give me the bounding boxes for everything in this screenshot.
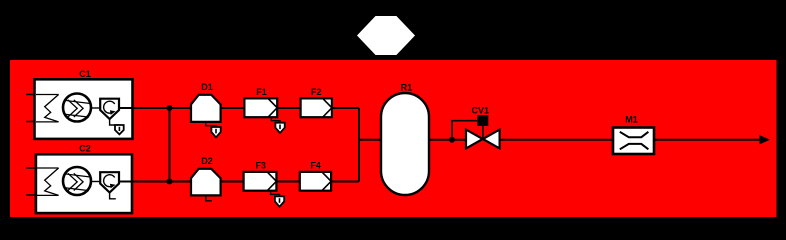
- wire valve signal line: [452, 121, 477, 140]
- wire F3 to F4: [276, 181, 299, 183]
- wire merge to receiver R1: [359, 139, 381, 141]
- wire junction to dryer D2: [170, 181, 192, 183]
- control valve CV1 body: [466, 130, 500, 149]
- svg-text:R1: R1: [401, 82, 413, 92]
- svg-text:CV1: CV1: [472, 106, 490, 116]
- filter F4: [300, 172, 331, 191]
- filter F1: [244, 98, 277, 117]
- receiver tank R1: [381, 93, 429, 195]
- svg-text:D2: D2: [201, 156, 213, 166]
- wire D2 to F3: [221, 181, 244, 183]
- status hexagon indicator: [357, 16, 415, 55]
- svg-text:F1: F1: [256, 87, 267, 97]
- wire F1 to F2: [277, 107, 300, 109]
- wire CV1 to meter M1: [500, 139, 613, 141]
- junction node upper: [167, 105, 173, 111]
- valve CV1 stem: [482, 126, 484, 139]
- separator rotation arrow C2: [104, 175, 116, 189]
- compressor blades C2: [64, 173, 90, 190]
- auto drain shield F3: [275, 196, 284, 206]
- valve CV1 actuator: [477, 115, 488, 126]
- separator rotation arrow C1: [104, 101, 116, 115]
- moisture separator C1: [100, 99, 119, 119]
- auto drain shield C1: [115, 125, 124, 134]
- wire F2 to merge riser: [332, 107, 359, 109]
- wire C1 intake line upper: [26, 94, 58, 96]
- wire R1 to valve CV1: [429, 139, 466, 141]
- wire compressor to separator C2: [91, 181, 100, 183]
- svg-text:F4: F4: [310, 160, 321, 170]
- re-draw of intake lines inside box C1: [36, 95, 59, 122]
- wire junction to dryer D1: [170, 107, 192, 109]
- wire C1 output to junction: [119, 107, 170, 109]
- intake filter symbol C2: [45, 168, 59, 195]
- wire C2 output to junction: [119, 181, 170, 183]
- wire C2 intake line lower: [26, 194, 58, 196]
- wire dryer drain D1: [206, 122, 216, 127]
- filter F2: [301, 98, 332, 117]
- auto drain shield F1: [275, 123, 284, 133]
- wire junction riser between branches: [169, 108, 171, 182]
- wire D1 to F1: [221, 107, 245, 109]
- dryer D1: [191, 95, 221, 122]
- wire C2 intake line upper: [26, 167, 58, 169]
- re-draw of intake lines inside box C2: [37, 168, 59, 195]
- svg-text:C1: C1: [79, 69, 91, 79]
- auto drain shield D1: [211, 127, 220, 137]
- compressor blades C1: [64, 100, 90, 117]
- wire merge riser: [358, 108, 360, 182]
- compressor circle C2: [63, 167, 91, 195]
- wire F4 to merge riser: [331, 181, 359, 183]
- svg-text:F2: F2: [311, 87, 322, 97]
- svg-text:D1: D1: [201, 82, 213, 92]
- junction node lower: [167, 179, 173, 185]
- junction node valve signal tap: [449, 137, 455, 143]
- compressor unit box C1: [35, 79, 133, 139]
- svg-text:M1: M1: [625, 114, 638, 124]
- filter F3: [244, 172, 277, 191]
- compressor unit box C2: [36, 154, 132, 213]
- compressor circle C1: [63, 94, 91, 122]
- wire compressor to separator C1: [91, 107, 100, 109]
- wire separator drain C1: [110, 119, 120, 125]
- svg-text:F3: F3: [255, 160, 266, 170]
- svg-text:C2: C2: [79, 144, 91, 154]
- manual drain hook C2: [110, 193, 116, 199]
- flow meter M1: [613, 128, 654, 155]
- wire M1 to outlet arrow: [654, 139, 761, 141]
- intake filter symbol C1: [45, 95, 59, 122]
- manual drain hook D2: [206, 195, 212, 200]
- dryer D2: [191, 169, 221, 196]
- outlet arrowhead: [760, 135, 771, 144]
- wire filter drain F3: [271, 191, 280, 197]
- wire filter drain F1: [271, 117, 280, 123]
- wire C1 intake line lower: [26, 121, 58, 123]
- moisture separator C2: [100, 172, 119, 192]
- red panel background: [10, 60, 777, 217]
